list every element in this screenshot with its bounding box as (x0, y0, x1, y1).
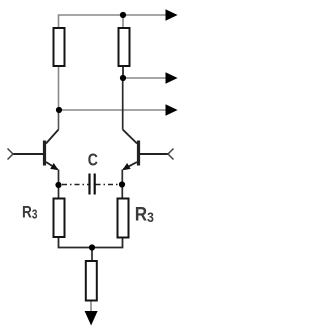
wire right emitter vertical (121, 170, 123, 199)
wire tail resistor top (91, 248, 93, 262)
node dot right collector (120, 75, 126, 81)
emitter arrow VT2 (122, 163, 130, 170)
arrow current down (85, 311, 98, 326)
resistor Rc left (54, 28, 65, 66)
transistor VT2 (123, 130, 168, 170)
capacitor C dashed wire left (62, 184, 89, 186)
node dot left emitter (55, 182, 61, 188)
arrow output top (166, 9, 178, 20)
input chevron right (168, 149, 174, 160)
wire left collector vertical (58, 66, 60, 110)
wire left emitter vertical (58, 170, 60, 199)
wire right resistor bottom to node (122, 66, 124, 78)
resistor tail (86, 261, 97, 301)
svg-text:C: C (88, 150, 98, 170)
wire tail resistor bottom (90, 301, 92, 313)
capacitor C plates (90, 174, 95, 195)
wire output rail 2 (123, 77, 166, 79)
arrow output middle (166, 72, 178, 83)
resistor R3 right (118, 199, 129, 238)
transistor VT1 (13, 130, 59, 170)
wire right collector vertical (122, 78, 124, 130)
node dot left collector (56, 107, 62, 113)
wire output rail 3 (59, 109, 166, 111)
input chevron left (8, 149, 14, 160)
resistor R3 left (54, 199, 65, 238)
wire right supply vertical (122, 15, 124, 28)
resistor Rc right (119, 28, 130, 66)
emitter arrow VT1 (50, 163, 58, 170)
wire bottom rail (59, 237, 123, 248)
node dot tail (89, 244, 95, 250)
node dot right emitter (119, 181, 125, 187)
arrow output lower (166, 104, 178, 115)
wire top rail (59, 15, 167, 28)
node dot supply (120, 12, 126, 18)
capacitor C dashed wire right (96, 184, 119, 186)
wire left collector to transistor (58, 110, 60, 130)
